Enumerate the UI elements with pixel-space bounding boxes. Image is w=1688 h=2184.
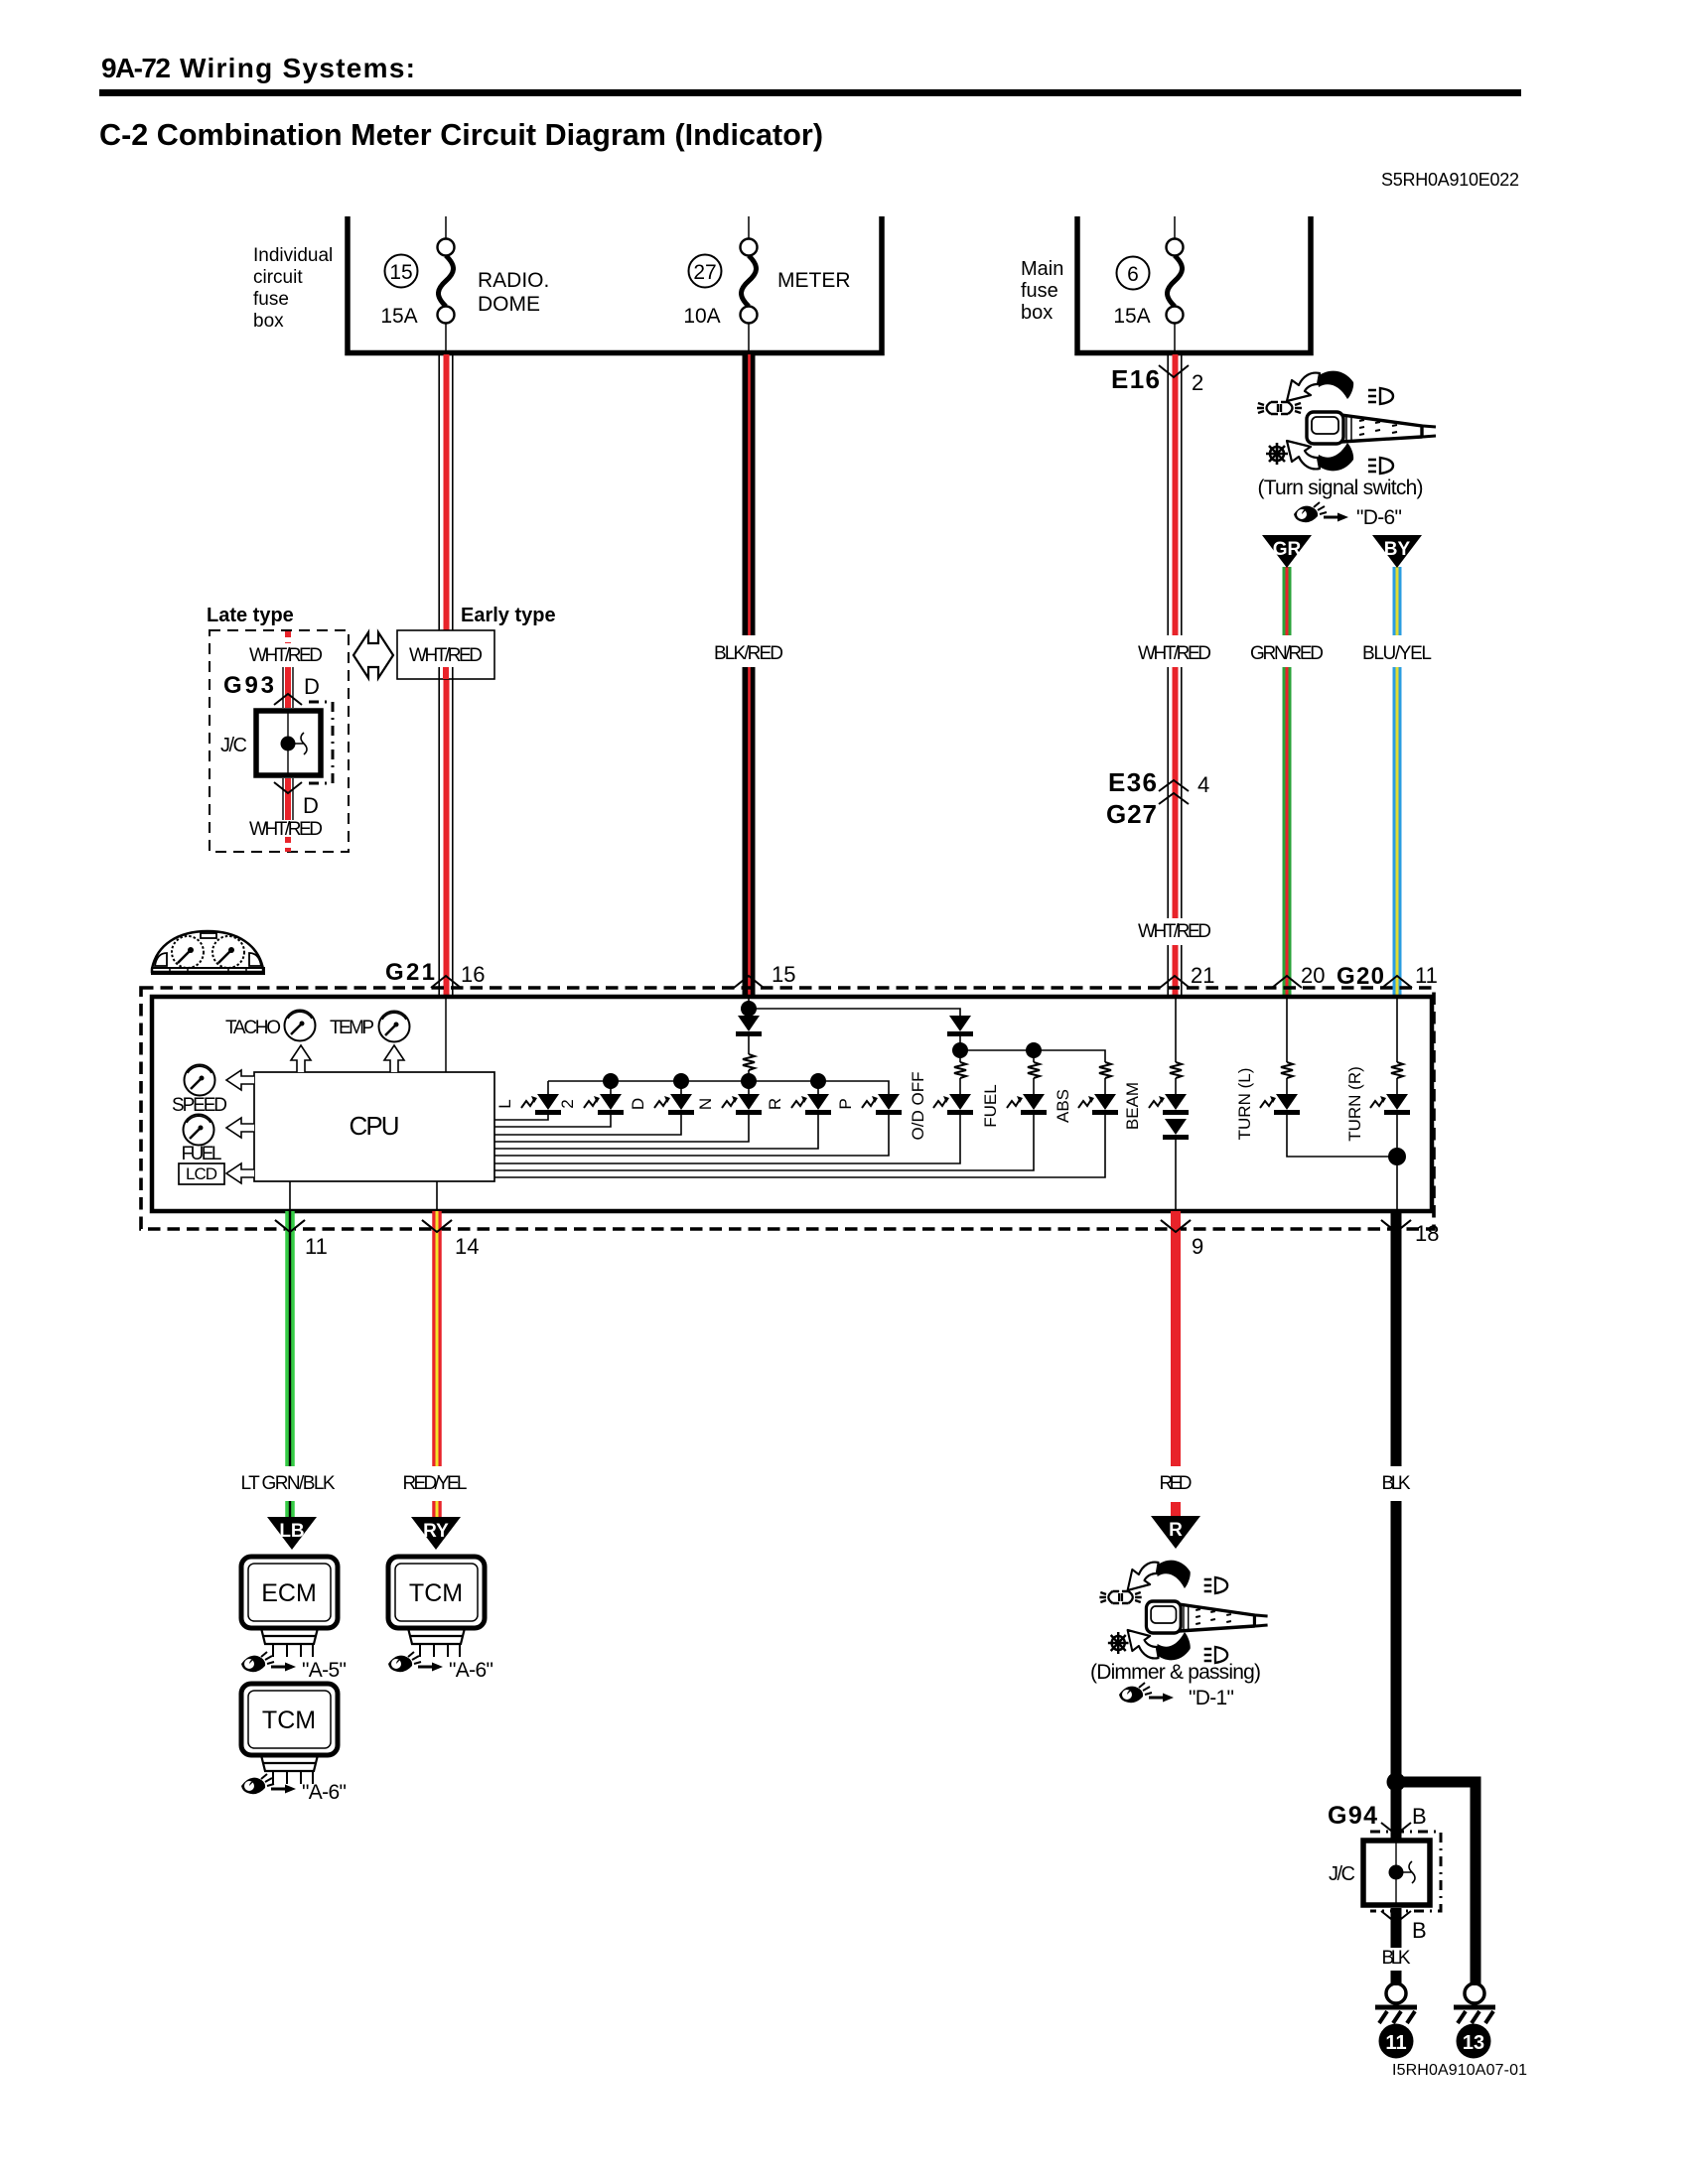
svg-text:"A-6": "A-6": [302, 1781, 347, 1804]
svg-text:G21: G21: [385, 959, 435, 986]
svg-text:S5RH0A910E022: S5RH0A910E022: [1381, 170, 1519, 190]
svg-text:LT GRN/BLK: LT GRN/BLK: [241, 1473, 336, 1494]
svg-text:fuse: fuse: [1021, 280, 1058, 302]
svg-text:GRN/RED: GRN/RED: [1250, 643, 1324, 664]
svg-text:RADIO.: RADIO.: [478, 269, 549, 292]
svg-text:"D-6": "D-6": [1356, 506, 1402, 529]
svg-text:box: box: [1021, 302, 1053, 324]
svg-text:2: 2: [558, 1099, 577, 1108]
svg-text:18: 18: [1415, 1221, 1439, 1246]
svg-text:15A: 15A: [1113, 305, 1150, 328]
svg-text:RED/YEL: RED/YEL: [403, 1473, 468, 1494]
svg-text:TURN (R): TURN (R): [1345, 1066, 1364, 1142]
svg-text:27: 27: [693, 261, 716, 284]
svg-text:WHT/RED: WHT/RED: [1138, 921, 1211, 942]
svg-text:9A-72: 9A-72: [101, 53, 171, 83]
svg-text:C-2 Combination Meter Circuit: C-2 Combination Meter Circuit Diagram (I…: [99, 118, 823, 152]
svg-text:O/D OFF: O/D OFF: [909, 1072, 927, 1141]
svg-text:11: 11: [1415, 963, 1438, 988]
svg-text:circuit: circuit: [253, 267, 303, 288]
svg-text:WHT/RED: WHT/RED: [249, 645, 323, 666]
svg-text:14: 14: [455, 1234, 479, 1259]
svg-text:TEMP: TEMP: [330, 1018, 374, 1038]
svg-text:L: L: [495, 1099, 514, 1108]
svg-text:fuse: fuse: [253, 289, 289, 310]
svg-text:D: D: [304, 674, 320, 699]
svg-text:"D-1": "D-1": [1189, 1687, 1234, 1709]
svg-text:FUEL: FUEL: [981, 1084, 1000, 1127]
svg-text:I5RH0A910A07-01: I5RH0A910A07-01: [1392, 2062, 1527, 2079]
svg-text:box: box: [253, 311, 284, 332]
svg-text:B: B: [1412, 1918, 1427, 1943]
svg-text:Main: Main: [1021, 258, 1063, 280]
svg-text:15: 15: [389, 261, 412, 284]
svg-text:4: 4: [1197, 772, 1209, 797]
svg-text:G27: G27: [1106, 799, 1157, 829]
svg-text:WHT/RED: WHT/RED: [249, 819, 323, 840]
svg-text:"A-5": "A-5": [302, 1659, 347, 1682]
svg-text:Wiring Systems:: Wiring Systems:: [180, 53, 415, 83]
svg-text:RY: RY: [423, 1521, 449, 1542]
svg-text:11: 11: [1385, 2032, 1406, 2054]
svg-text:BLK/RED: BLK/RED: [714, 643, 783, 664]
svg-text:E36: E36: [1108, 767, 1157, 797]
svg-text:(Dimmer & passing): (Dimmer & passing): [1090, 1661, 1261, 1684]
svg-text:E16: E16: [1111, 364, 1160, 394]
svg-text:G20: G20: [1336, 963, 1384, 990]
svg-text:BLK: BLK: [1382, 1473, 1411, 1494]
svg-text:BLU/YEL: BLU/YEL: [1362, 643, 1432, 664]
svg-text:TCM: TCM: [262, 1706, 316, 1734]
svg-text:FUEL: FUEL: [182, 1144, 222, 1164]
svg-text:13: 13: [1463, 2032, 1484, 2054]
svg-text:Individual: Individual: [253, 245, 333, 266]
svg-text:20: 20: [1301, 963, 1325, 988]
svg-text:ABS: ABS: [1054, 1089, 1072, 1123]
svg-text:9: 9: [1192, 1234, 1203, 1259]
svg-text:Late type: Late type: [207, 605, 294, 626]
svg-text:WHT/RED: WHT/RED: [409, 645, 483, 666]
svg-text:R: R: [766, 1098, 784, 1110]
svg-text:"A-6": "A-6": [449, 1659, 493, 1682]
svg-text:TURN (L): TURN (L): [1235, 1068, 1254, 1141]
svg-text:15A: 15A: [380, 305, 417, 328]
svg-text:D: D: [629, 1098, 647, 1110]
svg-text:G94: G94: [1328, 1802, 1377, 1830]
svg-text:J/C: J/C: [220, 735, 247, 756]
svg-text:CPU: CPU: [350, 1111, 400, 1141]
svg-text:15: 15: [772, 962, 795, 987]
svg-text:BEAM: BEAM: [1123, 1082, 1142, 1130]
svg-text:Early type: Early type: [461, 605, 556, 626]
svg-text:LCD: LCD: [186, 1164, 217, 1183]
svg-text:16: 16: [461, 962, 485, 987]
svg-text:11: 11: [305, 1234, 328, 1259]
svg-text:B: B: [1412, 1804, 1427, 1829]
svg-text:GR: GR: [1273, 539, 1302, 560]
svg-text:METER: METER: [777, 269, 851, 292]
svg-text:J/C: J/C: [1329, 1863, 1355, 1885]
svg-text:RED: RED: [1160, 1473, 1193, 1494]
svg-text:TCM: TCM: [409, 1579, 463, 1607]
svg-text:G93: G93: [223, 672, 274, 699]
svg-text:D: D: [303, 793, 319, 818]
svg-text:6: 6: [1127, 263, 1139, 286]
svg-text:N: N: [696, 1098, 715, 1110]
svg-text:BY: BY: [1384, 539, 1411, 560]
svg-text:10A: 10A: [683, 305, 720, 328]
svg-text:21: 21: [1191, 963, 1214, 988]
svg-text:SPEED: SPEED: [172, 1095, 227, 1116]
svg-text:WHT/RED: WHT/RED: [1138, 643, 1211, 664]
svg-text:TACHO: TACHO: [225, 1018, 281, 1038]
svg-text:R: R: [1169, 1520, 1183, 1541]
svg-text:P: P: [836, 1098, 855, 1109]
svg-text:BLK: BLK: [1382, 1948, 1411, 1969]
svg-text:2: 2: [1192, 370, 1203, 395]
svg-text:LB: LB: [279, 1521, 304, 1542]
svg-text:DOME: DOME: [478, 293, 540, 316]
svg-text:(Turn signal switch): (Turn signal switch): [1258, 477, 1424, 499]
svg-text:ECM: ECM: [261, 1579, 317, 1607]
